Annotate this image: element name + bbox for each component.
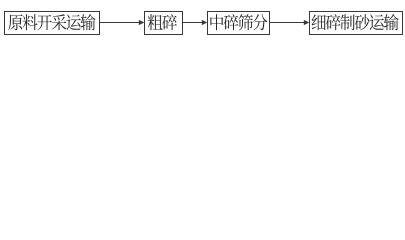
label text 原料开采运输 bbox=[8, 14, 95, 30]
label text 中碎筛分 bbox=[210, 14, 267, 30]
process box4 细碎制砂运输: rectangle bbox=[310, 12, 403, 35]
arrow 1 box1->box2: connector line with arrowhead bbox=[100, 20, 144, 25]
process box2 粗碎: rectangle bbox=[145, 12, 183, 35]
flowchart: crushing / sand-making process bbox=[0, 0, 405, 41]
arrow 2 box2->box3: connector line with arrowhead bbox=[183, 20, 208, 25]
arrow 3 box3->box4: connector line with arrowhead bbox=[270, 20, 310, 25]
label text 粗碎 bbox=[148, 14, 177, 30]
process box1 原料开采运输: rectangle bbox=[5, 12, 100, 35]
label text 细碎制砂运输 bbox=[312, 14, 399, 30]
process box3 中碎筛分: rectangle bbox=[208, 12, 270, 35]
